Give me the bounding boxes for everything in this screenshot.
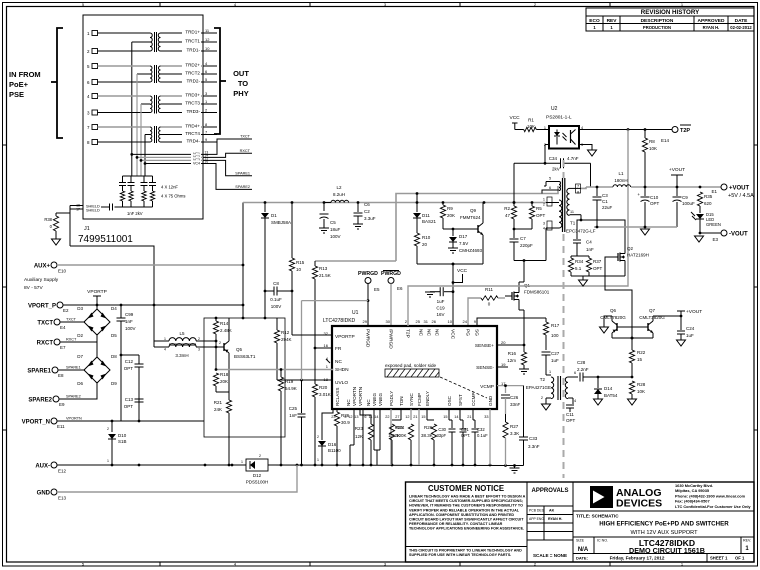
U1 left pin labels	[324, 331, 355, 386]
svg-text:E5: E5	[374, 287, 380, 292]
svg-text:2: 2	[543, 203, 545, 207]
svg-text:100uF: 100uF	[682, 201, 695, 206]
resistor R16 12m	[507, 351, 526, 369]
svg-text:R36: R36	[341, 413, 350, 418]
svg-text:C24: C24	[686, 326, 695, 331]
svg-text:L5: L5	[179, 331, 185, 336]
svg-text:4: 4	[543, 227, 545, 231]
ground (C2)	[353, 224, 363, 229]
svg-text:47: 47	[505, 213, 511, 218]
capacitor C25 1nF	[289, 380, 306, 465]
wire main rail y202	[243, 201, 546, 204]
svg-text:3.3nF: 3.3nF	[528, 444, 540, 449]
svg-text:10K: 10K	[637, 389, 645, 394]
svg-text:16V: 16V	[436, 312, 444, 317]
resistor R38 0	[44, 213, 70, 239]
resistor R8 10K	[642, 130, 657, 188]
svg-text:D5: D5	[111, 333, 117, 338]
wire bridge2 vertical	[96, 342, 98, 399]
svg-text:SPARE2: SPARE2	[66, 395, 81, 399]
ground (output rail)	[641, 229, 650, 235]
terminal PWRGDb E6	[381, 271, 403, 327]
diode D14 BAT54	[594, 376, 618, 399]
svg-text:UVLO: UVLO	[335, 380, 348, 386]
svg-text:C7: C7	[520, 236, 526, 241]
svg-text:R19: R19	[285, 379, 294, 384]
svg-text:Friday, February 17, 2012: Friday, February 17, 2012	[610, 556, 665, 561]
svg-text:6: 6	[549, 186, 551, 190]
svg-text:VC4: VC4	[193, 161, 200, 165]
wire VCMP net	[497, 384, 524, 393]
text auxiliary supply	[24, 277, 59, 291]
svg-text:CUSTOMER NOTICE: CUSTOMER NOTICE	[428, 484, 504, 493]
svg-text:24: 24	[463, 319, 468, 324]
svg-text:20: 20	[501, 340, 506, 345]
diode D10 S1B	[107, 421, 127, 465]
svg-text:2: 2	[259, 454, 261, 458]
svg-text:SPARE1: SPARE1	[235, 171, 250, 175]
svg-text:/PWRGD: /PWRGD	[388, 329, 394, 349]
capacitor C3 C1 22uF	[593, 187, 613, 227]
svg-text:5: 5	[549, 177, 551, 181]
diode D16 B1100	[317, 409, 341, 465]
svg-text:TRD3-: TRD3-	[186, 109, 200, 114]
svg-text:PWRGD: PWRGD	[381, 271, 401, 277]
svg-text:TRCT1: TRCT1	[185, 38, 200, 43]
title block outline	[406, 482, 755, 562]
wire bottom rail left	[57, 464, 246, 467]
resistor R36 30.9	[334, 412, 350, 465]
svg-text:SCALE = NONE: SCALE = NONE	[533, 553, 567, 558]
resistor R2 47	[504, 203, 516, 230]
svg-text:2kV: 2kV	[552, 167, 560, 172]
svg-text:1: 1	[107, 459, 109, 463]
svg-text:VNEG: VNEG	[372, 393, 377, 406]
svg-text:E11: E11	[57, 424, 65, 429]
svg-text:4 X 75 Ohms: 4 X 75 Ohms	[161, 194, 185, 199]
svg-text:PG: PG	[465, 329, 471, 336]
svg-text:12m: 12m	[507, 358, 516, 363]
svg-text:+5V / 4.5A: +5V / 4.5A	[728, 193, 754, 199]
svg-text:U1: U1	[352, 310, 359, 316]
wire T1 secondary out	[581, 187, 586, 188]
svg-text:10: 10	[448, 319, 453, 324]
ground (R28)	[628, 399, 637, 405]
svg-text:-VOUT: -VOUT	[729, 232, 748, 238]
resistor R27 3.3K	[503, 414, 519, 466]
svg-text:CIRCUIT THAT MEETS CUSTOMER-SU: CIRCUIT THAT MEETS CUSTOMER-SUPPLIED SPE…	[409, 499, 523, 503]
svg-text:Q5: Q5	[236, 347, 243, 352]
svg-text:PoE+: PoE+	[9, 80, 29, 89]
svg-text:+: +	[637, 192, 640, 197]
svg-text:R27: R27	[510, 424, 519, 429]
capacitor C5 18uF 100V	[320, 203, 341, 240]
svg-text:VCC: VCC	[450, 329, 456, 340]
svg-text:R11: R11	[485, 287, 493, 292]
svg-text:NC: NC	[335, 359, 342, 365]
resistor R22 15	[629, 347, 645, 377]
svg-text:7: 7	[577, 185, 579, 189]
svg-text:TON: TON	[399, 396, 404, 406]
svg-text:18uF: 18uF	[330, 227, 341, 232]
svg-text:D7: D7	[77, 354, 83, 359]
ground (T2 pin2)	[542, 404, 551, 410]
wire T2P net down	[416, 130, 628, 287]
transformer T2 EPA4271GE	[526, 370, 576, 404]
TXCT/RXCT/SPARE1/SPARE2 stubs from J1	[210, 135, 252, 190]
svg-text:C32: C32	[477, 427, 485, 432]
svg-text:C1: C1	[602, 199, 608, 204]
capacitor C26 33nF	[501, 395, 521, 414]
svg-text:L1: L1	[618, 171, 624, 176]
svg-text:LINEAR TECHNOLOGY HAS MADE A B: LINEAR TECHNOLOGY HAS MADE A BEST EFFORT…	[409, 495, 526, 499]
svg-text:FMMT624: FMMT624	[460, 215, 481, 220]
svg-text:D10: D10	[118, 433, 127, 438]
svg-text:TRD4-: TRD4-	[186, 138, 200, 143]
TVS diode D1 SMBJ58A	[261, 203, 291, 292]
capacitor C6 C2 3.3uF	[354, 202, 376, 224]
svg-text:AUX+: AUX+	[34, 264, 51, 270]
svg-text:E12: E12	[58, 469, 67, 474]
wire R18 bottom	[216, 391, 229, 393]
svg-text:TRD2+: TRD2+	[185, 62, 200, 67]
svg-text:R12: R12	[281, 330, 290, 335]
svg-text:HIGH EFFICIENCY PoE+PD AND SWI: HIGH EFFICIENCY PoE+PD AND SWITCHER	[599, 521, 729, 528]
svg-text:D2: D2	[77, 333, 83, 338]
svg-text:VPORTN: VPORTN	[352, 387, 357, 406]
wire AUX+ rail	[57, 264, 244, 267]
svg-text:SPARE1: SPARE1	[27, 369, 51, 375]
terminal GND E13	[37, 489, 67, 501]
connector/magnetics J1 box	[83, 15, 203, 219]
svg-text:100V: 100V	[125, 326, 136, 331]
svg-text:HOWEVER, IT REMAINS THE CUSTOM: HOWEVER, IT REMAINS THE CUSTOMER'S RESPO…	[409, 504, 523, 508]
svg-text:SPARE2: SPARE2	[235, 185, 250, 189]
svg-text:BAS21: BAS21	[422, 219, 437, 224]
wire vcc bottom	[417, 263, 483, 266]
U1 refdes	[323, 310, 359, 324]
VPORTP tap label	[87, 289, 107, 305]
wire +vout to Q7	[653, 309, 702, 317]
wire UVLO stub	[277, 379, 333, 382]
svg-text:TECHNOLOGY APPLICATIONS ENGINE: TECHNOLOGY APPLICATIONS ENGINEERING FOR …	[409, 527, 524, 531]
svg-text:R13: R13	[319, 266, 328, 271]
svg-text:180nH: 180nH	[614, 178, 627, 183]
J1 center-tap VC1-VC4 lines	[130, 151, 210, 166]
svg-text:ENDLY: ENDLY	[425, 391, 430, 406]
resistor R37 OPT	[577, 256, 603, 276]
svg-text:PWRGD: PWRGD	[358, 271, 378, 277]
svg-text:RYAN H.: RYAN H.	[703, 25, 720, 30]
transformer T1 EPC3472G-LF	[542, 177, 596, 261]
svg-text:R18: R18	[220, 372, 229, 377]
wire FCMP down	[418, 409, 420, 465]
svg-text:C27: C27	[551, 351, 560, 356]
svg-text:SENSE+: SENSE+	[475, 343, 494, 349]
svg-text:8: 8	[577, 191, 579, 195]
U1 right pin labels	[475, 340, 506, 390]
svg-text:FCMP: FCMP	[417, 393, 422, 406]
svg-text:TRCT3: TRCT3	[185, 100, 200, 105]
svg-text:1nF: 1nF	[289, 413, 297, 418]
terminal RXCT E7	[37, 338, 77, 351]
bracket IN FROM PoE+ PSE	[9, 28, 63, 138]
svg-text:4: 4	[574, 399, 576, 403]
svg-text:2: 2	[107, 427, 109, 431]
wire vout rail	[586, 186, 613, 188]
svg-text:22: 22	[385, 415, 389, 419]
svg-text:PS2801-1-L: PS2801-1-L	[546, 115, 572, 121]
svg-text:C99: C99	[125, 312, 134, 317]
svg-text:SIZE: SIZE	[576, 539, 585, 543]
svg-text:TO: TO	[238, 79, 248, 88]
svg-text:C25: C25	[289, 406, 298, 411]
svg-text:2.2nF: 2.2nF	[577, 367, 589, 372]
svg-text:D3: D3	[77, 306, 83, 311]
ground (shield)	[52, 239, 61, 245]
svg-text:220pF: 220pF	[520, 243, 533, 248]
svg-text:VPORTN: VPORTN	[66, 417, 82, 421]
svg-text:RCLASS: RCLASS	[335, 388, 340, 406]
svg-text:3.01K: 3.01K	[319, 392, 331, 397]
capacitor C11 OPT	[566, 398, 576, 423]
svg-text:IC NO.: IC NO.	[597, 539, 608, 543]
svg-text:21.5K: 21.5K	[319, 273, 331, 278]
svg-text:30: 30	[386, 319, 391, 324]
svg-text:GREEN: GREEN	[706, 222, 721, 227]
capacitor C28 2.2nF	[573, 360, 598, 382]
svg-text:100V: 100V	[271, 304, 282, 309]
svg-text:10: 10	[205, 46, 210, 51]
svg-text:D8: D8	[111, 354, 117, 359]
wire R15 down	[291, 291, 293, 335]
svg-text:TITLE: SCHEMATIC: TITLE: SCHEMATIC	[576, 514, 619, 519]
svg-text:1: 1	[164, 337, 166, 341]
svg-text:T2P: T2P	[680, 128, 690, 134]
svg-text:OPT: OPT	[124, 404, 134, 409]
approvals box	[527, 488, 573, 558]
svg-text:DEVICES: DEVICES	[616, 498, 662, 510]
capacitor C33 3.3nF	[519, 386, 540, 466]
svg-text:VPORT_N: VPORT_N	[22, 420, 50, 426]
svg-text:20K: 20K	[220, 379, 228, 384]
svg-text:T1: T1	[570, 221, 576, 226]
VCC symbol	[457, 268, 468, 274]
J1 termination network 4x12nF 4x75ohm 1nF2kV	[104, 176, 185, 216]
capacitor C27 1uF	[542, 351, 560, 371]
resistor R15 10	[289, 203, 304, 292]
wire R34R37 join	[571, 276, 625, 280]
svg-text:PRODUCTION: PRODUCTION	[643, 25, 671, 30]
svg-text:Q7: Q7	[649, 308, 656, 313]
title text block	[573, 511, 754, 562]
wire Q6Q7 net	[600, 316, 654, 347]
svg-text:VPORTN: VPORTN	[358, 387, 363, 406]
ground (C19)	[425, 292, 435, 297]
svg-text:E6: E6	[397, 286, 403, 291]
svg-text:SHEET 1: SHEET 1	[710, 556, 728, 561]
wire U2 pin3 gnd	[579, 145, 592, 151]
svg-text:DATE: DATE	[735, 18, 749, 24]
wire R13 to FR	[314, 347, 333, 350]
wire gray E5 net	[302, 301, 369, 380]
svg-text:R38: R38	[44, 217, 52, 222]
svg-text:APPLICATION. COMPONENT SUBSTI: APPLICATION. COMPONENT SUBSTITUTION AND …	[409, 513, 514, 517]
svg-text:100V: 100V	[330, 234, 341, 239]
resistor R13 21.5K	[312, 261, 396, 348]
isolation barrier dashed	[563, 160, 565, 478]
capacitor C13 OPT	[124, 397, 144, 409]
wire RCLASS down	[336, 409, 338, 412]
terminal SPARE2 E9	[28, 395, 80, 408]
svg-text:C31: C31	[461, 427, 469, 432]
svg-text:3.3uF: 3.3uF	[364, 216, 376, 221]
capacitor C7 220pF	[510, 229, 534, 261]
resistor R23 12K	[355, 409, 374, 465]
wire shield to vport_p	[70, 246, 154, 305]
svg-text:TRCT4: TRCT4	[185, 131, 200, 136]
svg-text:1: 1	[549, 370, 551, 374]
svg-text:T2P: T2P	[405, 329, 411, 338]
svg-text:SPARE2: SPARE2	[28, 398, 52, 404]
wire SPARE2 elbow	[59, 382, 97, 399]
svg-text:R15: R15	[296, 260, 305, 265]
zener D17 7.5V CMHZ4693	[449, 229, 483, 253]
wire SPARE1 to bridge2	[58, 369, 85, 371]
svg-text:16: 16	[205, 160, 209, 164]
J1 SHIELD pins 17/18	[70, 204, 104, 247]
svg-text:R20: R20	[319, 385, 328, 390]
svg-text:Q2: Q2	[627, 246, 634, 251]
svg-text:33pF: 33pF	[436, 433, 446, 438]
Analog Devices logo	[590, 486, 662, 510]
svg-text:OF 1: OF 1	[735, 556, 745, 561]
terminal +VOUT E1	[711, 184, 754, 199]
svg-text:D1: D1	[271, 213, 277, 218]
ground (U2 pin3)	[588, 150, 597, 156]
svg-text:19: 19	[501, 362, 506, 367]
J1 refdes	[78, 226, 133, 245]
svg-text:33: 33	[484, 415, 488, 419]
svg-text:PHY: PHY	[233, 89, 248, 98]
svg-text:OPT: OPT	[124, 366, 134, 371]
wire T2P pin up	[408, 286, 416, 326]
svg-text:VPORTP: VPORTP	[87, 289, 107, 295]
svg-text:PSE: PSE	[9, 90, 24, 99]
svg-text:+VOUT: +VOUT	[729, 186, 750, 192]
capacitor C34 4.7nF 2kV	[513, 156, 591, 204]
svg-text:LTC4278IDKD: LTC4278IDKD	[323, 318, 356, 324]
wire -vout row	[594, 226, 677, 229]
wire vportp right	[203, 304, 205, 306]
svg-text:C33: C33	[529, 436, 538, 441]
svg-text:R2: R2	[504, 206, 510, 211]
svg-text:8.2uH: 8.2uH	[333, 192, 345, 197]
svg-text:C26: C26	[510, 395, 519, 400]
ground (C24)	[677, 340, 686, 346]
svg-text:C30: C30	[438, 427, 446, 432]
svg-text:27: 27	[395, 415, 399, 419]
svg-text:RXCT: RXCT	[37, 341, 54, 347]
svg-text:VCC: VCC	[510, 115, 521, 121]
transformer T4 in J1 with pins ('7', '8') / ('8', '7', '9')	[87, 122, 217, 176]
ground (D14)	[594, 399, 603, 405]
svg-text:PWRGD: PWRGD	[365, 329, 371, 348]
svg-text:DESCRIPTION: DESCRIPTION	[641, 18, 674, 24]
wire Q2 gate net	[605, 257, 633, 339]
svg-text:02-02-2012: 02-02-2012	[730, 25, 752, 30]
terminal VPORT_P E2	[28, 302, 69, 313]
svg-text:VCC: VCC	[457, 268, 468, 274]
svg-text:PCB DES.: PCB DES.	[529, 509, 545, 513]
svg-text:SFST: SFST	[458, 394, 463, 406]
svg-text:54.9K: 54.9K	[285, 386, 297, 391]
svg-text:16: 16	[324, 343, 329, 348]
svg-text:E1: E1	[711, 189, 717, 194]
wire VNEG pins down	[374, 409, 380, 465]
svg-text:C34: C34	[549, 156, 558, 161]
wire VPORT_N row	[57, 420, 204, 423]
svg-text:RXCT: RXCT	[66, 338, 77, 342]
svg-text:C8: C8	[273, 281, 279, 286]
capacitor C12 OPT	[120, 354, 144, 421]
svg-text:E2: E2	[63, 308, 69, 313]
revision history table	[586, 8, 754, 31]
svg-text:6: 6	[364, 415, 366, 419]
svg-text:U2: U2	[551, 106, 558, 112]
svg-text:D16: D16	[328, 442, 337, 447]
svg-text:exposed pad, solder side: exposed pad, solder side	[385, 363, 437, 368]
svg-text:TRD1-: TRD1-	[186, 47, 200, 52]
svg-text:EPC3472G-LF: EPC3472G-LF	[566, 229, 596, 234]
svg-text:11: 11	[570, 210, 574, 214]
ground (snubber2)	[579, 280, 588, 286]
svg-text:C19: C19	[436, 306, 445, 311]
svg-text:1nF: 1nF	[125, 319, 133, 324]
svg-text:REVISION HISTORY: REVISION HISTORY	[641, 9, 700, 16]
svg-text:D9: D9	[111, 381, 117, 386]
terminal VPORT_N E11	[22, 417, 82, 430]
svg-text:RYAN H.: RYAN H.	[548, 517, 562, 521]
capacitor C24 1uF	[677, 316, 695, 340]
diode D12 PDS5100H	[241, 454, 270, 485]
LED D15 GREEN	[691, 212, 721, 233]
svg-text:3.3mH: 3.3mH	[175, 353, 188, 358]
transistor Q7 CMLT3820G	[639, 308, 665, 333]
svg-text:R16: R16	[508, 351, 517, 356]
wire snubber join	[513, 228, 532, 231]
svg-text:NC: NC	[346, 399, 351, 406]
svg-text:21: 21	[413, 415, 417, 419]
wire GND to rail	[57, 465, 297, 492]
U1 top pin labels	[363, 319, 480, 349]
wire L5 row	[153, 305, 155, 347]
wire GND pin down	[489, 409, 491, 465]
resistor R18 20K	[213, 346, 228, 392]
svg-text:R8: R8	[649, 139, 655, 144]
svg-text:TXCT: TXCT	[240, 135, 251, 139]
wire upper rail y193	[396, 186, 558, 261]
svg-text:R35: R35	[704, 194, 713, 199]
resistor R5 OPT	[529, 203, 545, 230]
svg-text:OSC: OSC	[447, 395, 452, 406]
wire SYNC down	[388, 409, 413, 465]
customer notice box	[406, 484, 528, 557]
svg-text:4.7nF: 4.7nF	[567, 156, 579, 161]
svg-text:1: 1	[543, 198, 545, 202]
svg-text:12: 12	[405, 415, 409, 419]
svg-text:APP ENG.: APP ENG.	[529, 517, 545, 521]
